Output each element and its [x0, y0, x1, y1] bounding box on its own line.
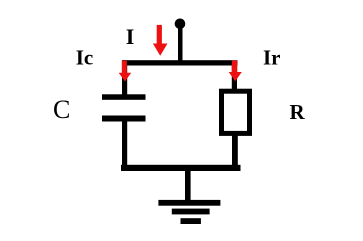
- wire right branch upper: [232, 63, 237, 91]
- ground bar 1: [158, 200, 220, 206]
- ground bar 3: [181, 218, 201, 224]
- capacitor C top plate: [102, 94, 146, 100]
- wire bottom horizontal: [121, 165, 241, 171]
- svg-text:C: C: [53, 95, 70, 124]
- wire left branch lower: [122, 121, 127, 167]
- terminal dot: [175, 19, 186, 30]
- svg-text:Ic: Ic: [76, 45, 94, 69]
- wire top horizontal: [122, 60, 238, 65]
- current arrow Ir: [229, 61, 242, 82]
- current arrow I: [153, 25, 168, 56]
- ground bar 2: [172, 209, 210, 215]
- wire right branch lower: [232, 133, 238, 167]
- svg-text:I: I: [126, 24, 135, 49]
- wire terminal stub: [178, 24, 183, 66]
- svg-text:R: R: [290, 100, 306, 124]
- svg-text:Ir: Ir: [263, 46, 281, 70]
- wire left branch upper: [122, 60, 127, 97]
- wire ground stub: [185, 168, 191, 206]
- capacitor C bottom plate: [102, 116, 146, 122]
- resistor R box: [222, 91, 250, 133]
- current arrow Ic: [119, 61, 132, 82]
